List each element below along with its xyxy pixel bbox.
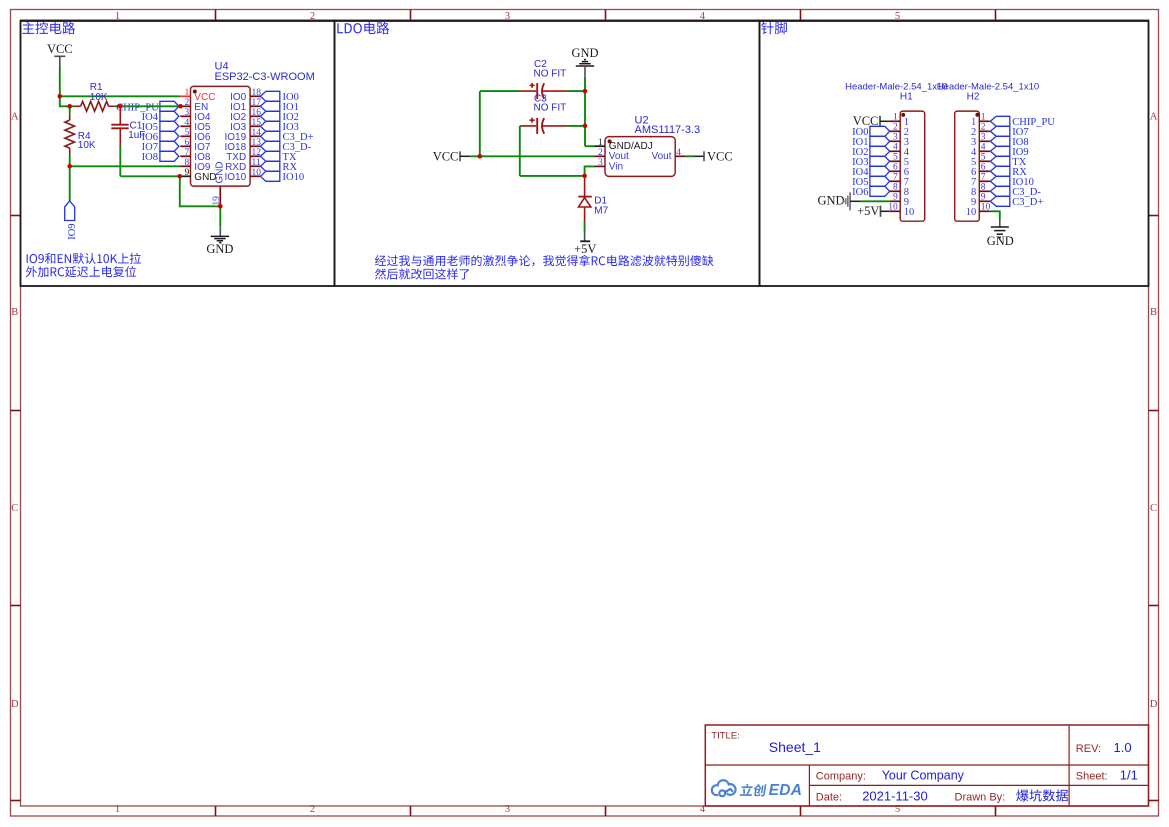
svg-text:Your Company: Your Company <box>882 769 965 783</box>
H2 pin 8 <box>971 183 990 198</box>
svg-text:8: 8 <box>185 158 190 168</box>
H1 pin 1 marker dot <box>901 113 905 117</box>
svg-text:2: 2 <box>185 98 190 108</box>
svg-text:GND: GND <box>987 234 1014 248</box>
U4 pin 11 (RXD) <box>225 158 261 173</box>
junction node R1/R4 <box>67 104 72 109</box>
section box LDO电路 <box>335 21 760 286</box>
net port IO10 flag (H2) <box>990 176 1010 186</box>
svg-text:C: C <box>11 503 18 514</box>
svg-text:B: B <box>1150 307 1157 318</box>
svg-text:Drawn By:: Drawn By: <box>955 791 1006 803</box>
svg-text:1: 1 <box>893 113 898 123</box>
logo text 立创 <box>740 784 767 797</box>
svg-text:R1: R1 <box>90 82 103 93</box>
annotation text line 2 (box1) <box>26 266 136 277</box>
svg-text:10: 10 <box>904 207 915 218</box>
net port IO1 flag (H1) <box>870 136 890 146</box>
net port IO9 flag (H2) <box>990 146 1010 156</box>
U4 pin 14 (IO19) <box>225 128 262 143</box>
svg-text:1: 1 <box>185 88 190 98</box>
svg-text:NO FIT: NO FIT <box>534 68 567 79</box>
junction C2 left / VCC rail <box>478 154 483 159</box>
H1 pin 2 <box>890 123 909 138</box>
svg-text:9: 9 <box>981 193 986 203</box>
svg-text:4: 4 <box>893 143 898 153</box>
junction CHIP_PU / C1 <box>118 104 123 109</box>
H1 pin 6 <box>890 163 909 178</box>
svg-text:Sheet:: Sheet: <box>1076 770 1108 782</box>
svg-text:1: 1 <box>115 804 120 815</box>
net port IO4 flag <box>160 111 179 121</box>
svg-text:+5V: +5V <box>857 204 879 218</box>
net port IO7 flag (H2) <box>990 126 1010 136</box>
wire VCC flag to rail <box>59 67 61 97</box>
svg-text:3: 3 <box>981 133 986 143</box>
U4 pin 1 (VCC) <box>180 88 215 103</box>
svg-text:Date:: Date: <box>816 791 842 803</box>
junction C3 right <box>583 124 588 129</box>
svg-text:3: 3 <box>598 158 603 168</box>
svg-text:4: 4 <box>981 143 986 153</box>
H1 pin 5 <box>890 153 909 168</box>
svg-text:3: 3 <box>505 804 510 815</box>
wire R4 bottom to U4 pin 8 <box>70 165 181 167</box>
H2 pin 1 <box>971 113 990 128</box>
power flag +5V (H1 pin 10) <box>857 204 890 218</box>
capacitor C1 <box>119 106 121 124</box>
net port IO2 flag (H1) <box>870 146 890 156</box>
svg-text:7: 7 <box>981 173 986 183</box>
net port IO10 flag (U4 right) <box>260 171 279 181</box>
power flag GND (top of LDO) <box>571 46 598 77</box>
svg-text:GND: GND <box>194 172 216 183</box>
wire down to port IO9 <box>69 166 71 201</box>
net port IO8 flag (H2) <box>990 136 1010 146</box>
annotation text line 1 (box1) <box>27 253 141 264</box>
svg-text:4: 4 <box>676 148 681 158</box>
ground symbol GND (H1 pin 9) <box>818 192 860 210</box>
svg-text:GND: GND <box>571 46 598 60</box>
H1 pin 9 <box>890 193 909 208</box>
connector H1 body <box>900 111 925 221</box>
svg-text:2: 2 <box>981 123 986 133</box>
H2 pin 3 <box>971 133 990 148</box>
section box 主控电路 <box>21 21 335 286</box>
U4 pin 1 marker dot <box>193 90 197 94</box>
wire U4 pin 9 to bottom node <box>180 176 221 206</box>
svg-text:6: 6 <box>185 138 190 148</box>
U4 pin 13 (IO18) <box>225 138 262 153</box>
svg-text:10K: 10K <box>78 140 96 151</box>
svg-text:GND: GND <box>215 161 226 183</box>
U4 pin 10 (IO10) <box>225 168 262 183</box>
svg-text:GND: GND <box>818 194 845 208</box>
svg-text:D: D <box>11 699 19 710</box>
svg-text:C3_D+: C3_D+ <box>1012 197 1043 208</box>
section title 主控电路 <box>22 22 75 34</box>
net port IO8 flag <box>160 151 179 161</box>
H1 pin 10 <box>888 203 914 218</box>
svg-text:6: 6 <box>981 163 986 173</box>
U2 pin 1 (GND/ADJ) <box>595 138 653 152</box>
resistor R1 <box>70 105 75 107</box>
svg-text:2: 2 <box>310 804 315 815</box>
svg-text:7: 7 <box>893 173 898 183</box>
power flag VCC (H1 pin 1) <box>853 114 890 128</box>
svg-text:AMS1117-3.3: AMS1117-3.3 <box>635 124 701 136</box>
net port C3_D+ flag (U4 right) <box>260 131 279 141</box>
svg-text:GND: GND <box>206 242 233 256</box>
net port IO9 flag <box>65 201 75 221</box>
net port C3_D- flag (H2) <box>990 186 1010 196</box>
U4 pin 3 (IO4) <box>180 108 211 123</box>
net port IO4 flag (H1) <box>870 166 890 176</box>
net port IO0 flag (U4 right) <box>260 91 279 101</box>
net port IO7 flag <box>160 141 179 151</box>
U4 pin 12 (TXD) <box>226 148 261 163</box>
H2 pin 6 <box>971 163 990 178</box>
H2 pin 4 <box>971 143 990 158</box>
svg-text:9: 9 <box>185 168 190 178</box>
svg-text:10: 10 <box>981 203 991 213</box>
svg-text:9: 9 <box>893 193 898 203</box>
wire C3 left vertical <box>519 126 521 176</box>
wire C1 bottom to U4 pin 9 <box>120 175 180 177</box>
svg-text:1: 1 <box>981 113 986 123</box>
svg-text:VCC: VCC <box>433 150 459 164</box>
U4 pin 7 (IO8) <box>180 148 211 163</box>
svg-text:10K: 10K <box>90 92 108 103</box>
svg-text:8: 8 <box>893 183 898 193</box>
svg-text:5: 5 <box>893 153 898 163</box>
H2 pin 2 <box>971 123 990 138</box>
svg-text:10: 10 <box>966 207 977 218</box>
section box 针脚 <box>760 21 1149 286</box>
svg-text:C: C <box>1150 503 1157 514</box>
U2 pin 2 (Vout) <box>595 148 629 162</box>
wire CHIP_PU to U4 pin 2 (EN) <box>120 105 180 107</box>
H2 pin 10 <box>966 203 991 218</box>
capacitor C3 (NO FIT) <box>520 118 585 134</box>
U4 pin 18 (IO0) <box>230 88 261 103</box>
H1 pin 8 <box>890 183 909 198</box>
title block outline <box>705 725 1148 806</box>
svg-text:TITLE:: TITLE: <box>711 731 740 742</box>
net port RX flag (H2) <box>990 166 1010 176</box>
svg-text:Header-Male-2.54_1x10: Header-Male-2.54_1x10 <box>937 82 1039 93</box>
wire GND to H1 pin 9 <box>860 200 890 202</box>
junction R4 / IO9 <box>67 164 72 169</box>
wire U2 pin 4 to VCC flag <box>685 155 695 157</box>
junction Vin node <box>582 174 587 179</box>
H2 pin 7 <box>971 173 990 188</box>
svg-text:7: 7 <box>185 148 190 158</box>
wire VCC rail down to R1/R4 node <box>60 96 70 106</box>
H1 pin 3 <box>890 133 909 148</box>
svg-text:5: 5 <box>185 128 190 138</box>
svg-text:H2: H2 <box>967 91 980 102</box>
H2 pin 9 <box>971 193 990 208</box>
drawn-by value 爆坑数据 <box>1016 789 1068 801</box>
wire C1 down to pin 9 row <box>119 146 121 176</box>
svg-text:2021-11-30: 2021-11-30 <box>862 788 928 803</box>
H1 pin 1 <box>890 113 909 128</box>
net port IO5 flag (H1) <box>870 176 890 186</box>
net port IO3 flag (H1) <box>870 156 890 166</box>
wire C3 bottom to Vin node <box>520 175 585 177</box>
net port RX flag (U4 right) <box>260 161 279 171</box>
resistor R4 <box>69 106 71 113</box>
svg-text:REV:: REV: <box>1076 743 1101 755</box>
U2 pin 1 marker dot <box>608 139 612 143</box>
svg-text:NO FIT: NO FIT <box>534 103 567 114</box>
svg-text:1/1: 1/1 <box>1120 767 1138 782</box>
net port IO6 flag <box>160 131 179 141</box>
U4 pin 15 (IO3) <box>230 118 261 133</box>
svg-text:Vout: Vout <box>609 151 629 162</box>
U4 pin 6 (IO7) <box>180 138 211 153</box>
svg-text:1: 1 <box>598 138 603 148</box>
junction at U4 pin 9 <box>178 174 183 179</box>
svg-text:2: 2 <box>598 148 603 158</box>
svg-text:A: A <box>11 112 19 123</box>
U4 pin 9 (GND) <box>180 168 216 183</box>
svg-text:IO9: IO9 <box>67 223 78 239</box>
wire GND net vertical <box>584 77 586 146</box>
net port IO5 flag <box>160 121 179 131</box>
svg-text:VCC: VCC <box>707 150 733 164</box>
svg-text:VCC: VCC <box>47 42 73 56</box>
svg-text:B: B <box>11 307 18 318</box>
wire D1 to +5V <box>584 222 586 232</box>
wire Vin node to U2 pin 3 <box>585 166 595 176</box>
net port C3_D+ flag (H2) <box>990 196 1010 206</box>
svg-text:IO8: IO8 <box>142 152 158 163</box>
svg-text:Company:: Company: <box>816 771 866 783</box>
diode D1 (M7) <box>578 176 591 222</box>
svg-text:4: 4 <box>185 118 190 128</box>
H2 pin 1 marker dot <box>975 113 979 117</box>
svg-text:+5V: +5V <box>574 242 596 256</box>
svg-text:IO6: IO6 <box>852 187 868 198</box>
svg-text:Vin: Vin <box>609 162 623 173</box>
op-amp U4 body (ESP32-C3-WROOM) <box>191 86 251 186</box>
svg-text:Header-Male-2.54_1x10: Header-Male-2.54_1x10 <box>845 82 947 93</box>
svg-text:6: 6 <box>893 163 898 173</box>
U4 pin 4 (IO5) <box>180 118 211 133</box>
H2 pin 5 <box>971 153 990 168</box>
net port IO3 flag (U4 right) <box>260 121 279 131</box>
svg-text:D: D <box>1150 699 1158 710</box>
annotation text line 2 (box2) <box>375 268 469 279</box>
power flag VCC (left of LDO) <box>433 150 470 164</box>
svg-text:H1: H1 <box>900 91 913 102</box>
svg-text:Vout: Vout <box>651 151 671 162</box>
ground symbol below U4 <box>206 226 233 256</box>
net port IO6 flag (H1) <box>870 186 890 196</box>
wire GND to U2 pin 1 <box>585 145 595 147</box>
junction on VCC rail <box>58 94 63 99</box>
wire VCC rail to U4 pin 1 <box>60 95 181 97</box>
svg-text:1.0: 1.0 <box>1114 740 1132 755</box>
section title 针脚 <box>761 22 787 34</box>
net port TX flag (U4 right) <box>260 151 279 161</box>
U2 pin 3 (Vin) <box>595 158 623 172</box>
U2 pin 4 (Vout right) <box>651 148 685 162</box>
junction at U4 pin 2 <box>178 104 183 109</box>
U4 pin 8 (IO9) <box>180 158 211 173</box>
net port IO2 flag (U4 right) <box>260 111 279 121</box>
net port TX flag (H2) <box>990 156 1010 166</box>
section title LDO电路 <box>337 22 389 34</box>
net port C3_D- flag (U4 right) <box>260 141 279 151</box>
H1 pin 7 <box>890 173 909 188</box>
logo cloud icon 立创EDA <box>712 780 736 797</box>
svg-text:5: 5 <box>981 153 986 163</box>
wire C2 left vertical <box>479 91 481 156</box>
connector H2 body <box>955 111 980 221</box>
net port CHIP_PU flag (H2) <box>990 116 1010 126</box>
svg-text:M7: M7 <box>594 205 608 216</box>
svg-text:10: 10 <box>888 203 898 213</box>
svg-text:A: A <box>1150 112 1158 123</box>
net port CHIP_PU flag <box>160 101 179 111</box>
svg-text:Sheet_1: Sheet_1 <box>769 739 821 755</box>
svg-text:3: 3 <box>893 133 898 143</box>
wire H2 pin 10 to ground <box>990 211 1000 219</box>
ground symbol below H2 <box>987 219 1014 248</box>
H1 pin 4 <box>890 143 910 158</box>
svg-text:EDA: EDA <box>769 782 803 799</box>
wire VCC rail to U2 pin 2 <box>470 155 595 157</box>
svg-text:ESP32-C3-WROOM: ESP32-C3-WROOM <box>215 71 315 83</box>
annotation text line 1 (box2) <box>375 255 714 267</box>
svg-text:GND/ADJ: GND/ADJ <box>609 141 653 152</box>
U4 pin 17 (IO1) <box>230 98 261 113</box>
net port IO1 flag (U4 right) <box>260 101 279 111</box>
svg-text:11: 11 <box>252 158 261 168</box>
junction below U4 <box>218 204 223 209</box>
wire to ground <box>219 206 221 226</box>
junction C2 right <box>583 89 588 94</box>
U4 pin 2 (EN) <box>180 98 208 113</box>
capacitor C2 (NO FIT) <box>480 83 585 99</box>
svg-text:IO10: IO10 <box>225 172 247 183</box>
svg-text:3: 3 <box>185 108 190 118</box>
svg-text:2: 2 <box>893 123 898 133</box>
U4 pin 5 (IO6) <box>180 128 211 143</box>
svg-text:8: 8 <box>981 183 986 193</box>
U4 pin 16 (IO2) <box>230 108 261 123</box>
power flag +5V (below D1) <box>574 232 596 257</box>
svg-text:IO10: IO10 <box>283 172 305 183</box>
net port IO0 flag (H1) <box>870 126 890 136</box>
regulator U2 body (AMS1117-3.3) <box>605 137 675 177</box>
U4 pin 19 (GND, bottom) <box>212 161 225 206</box>
power flag VCC (right of LDO) <box>695 150 733 164</box>
